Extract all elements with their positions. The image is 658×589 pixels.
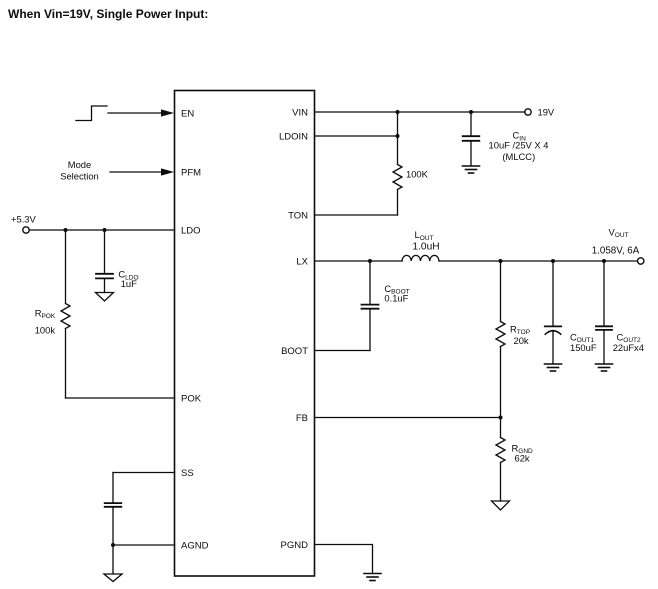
svg-text:LOUT: LOUT [415, 229, 434, 242]
svg-text:(MLCC): (MLCC) [502, 151, 535, 162]
ground PGND [364, 574, 381, 581]
EN step waveform symbol [76, 106, 107, 121]
svg-text:AGND: AGND [181, 541, 209, 552]
label CIN value [489, 130, 549, 163]
svg-text:Selection: Selection [60, 171, 99, 182]
svg-text:22uFx4: 22uFx4 [613, 342, 644, 353]
svg-text:LDOIN: LDOIN [279, 132, 308, 143]
svg-text:LDO: LDO [181, 226, 201, 237]
arrowhead into EN [161, 109, 174, 116]
ground COUT1 [545, 364, 562, 371]
junction dot LX/CBOOT [368, 259, 372, 263]
wire POK [66, 397, 175, 399]
svg-text:1.0uH: 1.0uH [412, 241, 439, 252]
svg-text:PGND: PGND [281, 540, 309, 551]
junction dot LX/COUT1 [551, 259, 555, 263]
svg-text:TON: TON [288, 211, 308, 222]
label CBOOT value [384, 283, 409, 304]
junction dot FB [499, 416, 503, 420]
junction dot LX/COUT2 [602, 259, 606, 263]
svg-text:100K: 100K [406, 169, 429, 180]
svg-text:EN: EN [181, 109, 194, 120]
svg-text:RPOK: RPOK [35, 307, 56, 320]
node VOUT terminal [638, 258, 644, 264]
capacitor SS [105, 473, 122, 546]
svg-text:1uF: 1uF [121, 278, 137, 289]
svg-text:0.1uF: 0.1uF [384, 293, 408, 304]
wire SS [113, 472, 175, 474]
label RTOP value [510, 323, 530, 346]
wire VOUT net [439, 260, 638, 262]
wire LDO net [29, 229, 174, 231]
svg-text:150uF: 150uF [570, 342, 597, 353]
svg-text:20k: 20k [514, 335, 529, 346]
resistor RTOP [496, 261, 505, 418]
svg-text:100k: 100k [35, 324, 56, 335]
svg-text:PFM: PFM [181, 168, 201, 179]
ground COUT2 [596, 364, 613, 371]
wire LX to inductor [315, 260, 403, 262]
wire BOOT [315, 350, 371, 352]
svg-text:When Vin=19V, Single Power Inp: When Vin=19V, Single Power Input: [8, 7, 208, 21]
wire PGND [315, 545, 373, 574]
svg-text:VIN: VIN [292, 108, 308, 119]
capacitor COUT1 polarized [545, 261, 561, 364]
label CLDO value [118, 269, 138, 290]
ground CIN [463, 166, 480, 173]
svg-text:VOUT: VOUT [609, 226, 629, 239]
wire VIN net [315, 111, 525, 113]
wire AGND ground stub [112, 545, 114, 574]
label COUT1 value [570, 331, 597, 353]
junction dot VIN/CIN [469, 110, 473, 114]
wire PFM input [110, 171, 162, 173]
svg-text:SS: SS [181, 468, 194, 479]
ground RGND [492, 501, 510, 510]
wire AGND [113, 544, 175, 546]
junction dot LX/RTOP [499, 259, 503, 263]
ground AGND [104, 574, 122, 582]
capacitor CBOOT [362, 261, 379, 351]
inductor LOUT [402, 255, 439, 261]
capacitor COUT2 [596, 261, 612, 364]
capacitor CIN [463, 112, 480, 166]
resistor RGND [496, 418, 505, 502]
svg-text:POK: POK [181, 394, 202, 405]
junction dot LDO/RPOK [64, 228, 68, 232]
svg-text:19V: 19V [538, 107, 555, 118]
wire LDOIN [315, 135, 398, 137]
svg-text:BOOT: BOOT [281, 346, 308, 357]
label COUT2 value [613, 331, 644, 353]
label RPOK value [35, 307, 56, 335]
arrowhead into PFM [161, 168, 174, 175]
svg-text:FB: FB [296, 413, 308, 424]
junction dot LDOIN [396, 134, 400, 138]
resistor RPOK [61, 230, 70, 398]
svg-text:10uF /25V X 4: 10uF /25V X 4 [489, 140, 549, 151]
wire TON [315, 214, 398, 216]
wire EN input [108, 112, 162, 114]
svg-text:1.058V, 6A: 1.058V, 6A [592, 245, 640, 256]
junction dot VIN/100K [396, 110, 400, 114]
svg-text:Mode: Mode [68, 159, 91, 170]
svg-text:62k: 62k [515, 452, 530, 463]
junction dot AGND [111, 543, 115, 547]
capacitor CLDO [96, 230, 113, 293]
ground CLDO [96, 293, 114, 302]
node 19V terminal [525, 109, 531, 115]
svg-text:LX: LX [296, 257, 308, 268]
resistor 100K [393, 112, 402, 215]
label VOUT [592, 226, 640, 256]
wire FB [315, 417, 501, 419]
IC U1 body [175, 91, 315, 577]
svg-text:+5.3V: +5.3V [11, 214, 37, 225]
label RGND value [512, 442, 534, 463]
junction dot LDO/CLDO [103, 228, 107, 232]
label LOUT value [412, 229, 439, 252]
